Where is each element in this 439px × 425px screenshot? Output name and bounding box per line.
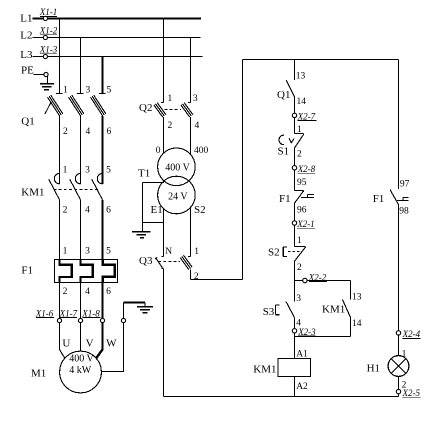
svg-text:1: 1 <box>168 94 173 104</box>
svg-text:T1: T1 <box>138 167 150 179</box>
svg-text:6: 6 <box>106 287 111 297</box>
svg-text:6: 6 <box>107 127 112 137</box>
svg-text:13: 13 <box>352 293 362 303</box>
svg-text:4: 4 <box>85 287 90 297</box>
svg-text:14: 14 <box>352 319 362 329</box>
svg-text:X2-4: X2-4 <box>402 329 421 339</box>
svg-text:1: 1 <box>194 247 199 257</box>
svg-text:14: 14 <box>297 97 307 107</box>
svg-text:3: 3 <box>193 94 198 104</box>
svg-text:2: 2 <box>168 121 173 131</box>
svg-text:98: 98 <box>399 207 409 217</box>
svg-text:95: 95 <box>297 178 307 188</box>
svg-text:1: 1 <box>402 349 407 359</box>
svg-text:X2-2: X2-2 <box>308 272 327 282</box>
svg-text:400 V: 400 V <box>69 354 94 365</box>
svg-text:3: 3 <box>85 166 90 176</box>
svg-text:U: U <box>62 338 70 350</box>
svg-text:97: 97 <box>400 180 410 190</box>
svg-text:6: 6 <box>106 206 111 216</box>
svg-text:X2-1: X2-1 <box>296 219 315 229</box>
svg-text:5: 5 <box>106 166 111 176</box>
svg-text:13: 13 <box>296 72 306 82</box>
svg-text:X2-7: X2-7 <box>297 111 316 121</box>
svg-text:3: 3 <box>85 247 90 257</box>
svg-text:Q1: Q1 <box>277 89 290 101</box>
svg-text:A1: A1 <box>296 349 308 359</box>
svg-text:Q3: Q3 <box>139 255 153 267</box>
svg-text:F1: F1 <box>21 264 33 276</box>
svg-text:E1: E1 <box>151 204 163 216</box>
svg-text:PE: PE <box>21 64 34 76</box>
svg-text:Q1: Q1 <box>21 115 34 127</box>
svg-text:5: 5 <box>106 247 111 257</box>
svg-text:2: 2 <box>63 127 68 137</box>
svg-text:X1-2: X1-2 <box>39 26 58 36</box>
svg-text:0: 0 <box>156 146 161 156</box>
svg-text:W: W <box>106 338 117 350</box>
svg-text:X1-3: X1-3 <box>39 45 58 55</box>
svg-text:S1: S1 <box>278 145 290 157</box>
svg-text:1: 1 <box>63 247 68 257</box>
svg-text:1: 1 <box>63 166 68 176</box>
svg-text:400 V: 400 V <box>165 162 190 173</box>
svg-text:3: 3 <box>86 86 91 96</box>
svg-text:24 V: 24 V <box>168 192 188 203</box>
svg-text:2: 2 <box>63 206 68 216</box>
svg-text:400: 400 <box>194 146 209 156</box>
svg-text:KM1: KM1 <box>253 364 276 376</box>
svg-text:KM1: KM1 <box>21 187 44 199</box>
svg-text:S3: S3 <box>263 306 275 318</box>
svg-text:4: 4 <box>85 206 90 216</box>
svg-text:4: 4 <box>195 121 200 131</box>
svg-text:F1: F1 <box>373 193 385 205</box>
svg-text:4: 4 <box>86 127 91 137</box>
svg-text:X1-1: X1-1 <box>39 7 58 17</box>
svg-text:L1: L1 <box>20 12 32 24</box>
svg-text:2: 2 <box>297 149 302 159</box>
svg-text:KM1: KM1 <box>322 304 345 316</box>
svg-text:Q2: Q2 <box>139 102 152 114</box>
svg-text:4 kW: 4 kW <box>69 365 92 376</box>
svg-text:2: 2 <box>297 263 302 273</box>
svg-text:M1: M1 <box>31 367 46 379</box>
svg-text:X1-6: X1-6 <box>35 308 54 318</box>
svg-text:96: 96 <box>297 206 307 216</box>
svg-text:1: 1 <box>297 236 302 246</box>
svg-text:1: 1 <box>297 125 302 135</box>
svg-text:A2: A2 <box>296 382 308 392</box>
svg-text:X2-5: X2-5 <box>402 388 421 398</box>
svg-text:X1-7: X1-7 <box>59 308 78 318</box>
svg-text:1: 1 <box>63 86 68 96</box>
svg-text:2: 2 <box>194 272 199 282</box>
svg-text:L2: L2 <box>20 30 32 42</box>
svg-text:X2-8: X2-8 <box>297 164 316 174</box>
svg-text:3: 3 <box>296 294 301 304</box>
svg-text:2: 2 <box>63 287 68 297</box>
svg-text:X1-8: X1-8 <box>81 308 100 318</box>
svg-text:L3: L3 <box>20 49 33 61</box>
svg-text:S2: S2 <box>194 204 206 216</box>
svg-text:V: V <box>86 338 94 350</box>
svg-text:F1: F1 <box>279 193 291 205</box>
svg-text:5: 5 <box>107 86 112 96</box>
svg-text:H1: H1 <box>367 363 380 375</box>
svg-text:N: N <box>165 247 172 257</box>
svg-text:X2-3: X2-3 <box>297 327 316 337</box>
svg-text:S2: S2 <box>268 247 280 259</box>
